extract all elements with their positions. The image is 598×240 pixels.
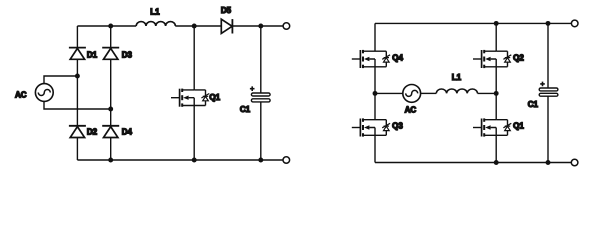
wire bridge left column bbox=[76, 26, 78, 160]
AC source (right circuit) bbox=[403, 85, 421, 103]
wire AC bottom lead bbox=[44, 101, 111, 109]
transistor Q4 bbox=[352, 50, 390, 68]
node junction bottom D4 bbox=[108, 158, 113, 163]
wire top rail left circuit bbox=[77, 25, 283, 27]
inductor L1 (left circuit) bbox=[136, 22, 175, 26]
wire top rail right circuit bbox=[375, 22, 571, 24]
svg-text:C1: C1 bbox=[528, 100, 539, 109]
svg-text:D4: D4 bbox=[122, 128, 133, 137]
transistor Q1 (left circuit) bbox=[171, 89, 209, 107]
svg-text:D5: D5 bbox=[221, 6, 232, 15]
diode D5 bbox=[221, 19, 232, 33]
node junction top D3 bbox=[108, 24, 113, 29]
diode D4 bbox=[102, 126, 119, 138]
node junction top C1 bbox=[258, 24, 263, 29]
svg-text:L1: L1 bbox=[150, 8, 160, 17]
transistor Q3 bbox=[352, 118, 390, 136]
node junction midline right bbox=[494, 91, 499, 96]
wire AC top lead bbox=[44, 76, 77, 84]
inductor L1 (right circuit) bbox=[436, 89, 477, 93]
node junction bottom C1 right bbox=[546, 160, 551, 165]
capacitor C1 (left circuit) bbox=[250, 86, 270, 102]
transistor Q2 bbox=[473, 50, 511, 68]
wire midline AC left segment bbox=[375, 92, 403, 94]
transistor Q1 (right circuit) bbox=[473, 118, 511, 136]
wire Q1 source (left circuit) bbox=[193, 106, 195, 161]
svg-text:Q4: Q4 bbox=[392, 53, 403, 62]
svg-text:AC: AC bbox=[405, 106, 417, 115]
node junction AC top bbox=[75, 74, 80, 79]
terminal bottom left circuit bbox=[283, 157, 290, 164]
svg-text:Q3: Q3 bbox=[392, 122, 403, 131]
svg-text:L1: L1 bbox=[452, 73, 462, 82]
wire bridge right column bbox=[110, 26, 112, 160]
node junction AC bottom bbox=[108, 107, 113, 112]
wire left column segments right circuit bbox=[374, 23, 376, 162]
terminal bottom right circuit bbox=[571, 159, 578, 166]
node junction top C1 right bbox=[546, 21, 551, 26]
svg-text:D3: D3 bbox=[122, 50, 133, 59]
diode D3 bbox=[102, 48, 119, 60]
terminal top right circuit bbox=[571, 20, 578, 27]
svg-text:Q1: Q1 bbox=[513, 122, 524, 131]
node junction midline left bbox=[373, 91, 378, 96]
node junction bottom Q1 bbox=[192, 158, 197, 163]
AC source (left circuit) bbox=[35, 84, 53, 102]
capacitor C1 (right circuit) bbox=[539, 82, 558, 97]
node junction bottom Q1 right bbox=[494, 160, 499, 165]
wire C1 column (left circuit) bbox=[260, 26, 262, 160]
wire Q1 drain (left circuit) bbox=[193, 26, 195, 90]
terminal top left circuit bbox=[283, 23, 290, 30]
svg-text:D1: D1 bbox=[87, 50, 98, 59]
wire midline L1 to right column bbox=[478, 92, 497, 94]
svg-text:Q2: Q2 bbox=[513, 53, 524, 62]
svg-text:C1: C1 bbox=[240, 105, 251, 114]
diode D2 bbox=[69, 126, 86, 138]
node junction top Q2 bbox=[494, 21, 499, 26]
node junction top Q1 bbox=[192, 24, 197, 29]
svg-text:AC: AC bbox=[15, 91, 27, 100]
svg-text:Q1: Q1 bbox=[209, 93, 220, 102]
wire bottom rail right circuit bbox=[375, 162, 571, 164]
wire bottom rail left circuit bbox=[77, 159, 283, 161]
wire C1 column (right circuit) bbox=[547, 23, 549, 162]
svg-text:D2: D2 bbox=[87, 128, 98, 137]
wire right column segments right circuit bbox=[495, 23, 497, 162]
node junction bottom C1 bbox=[258, 158, 263, 163]
wire midline AC to L1 bbox=[421, 92, 437, 94]
diode D1 bbox=[69, 48, 86, 60]
